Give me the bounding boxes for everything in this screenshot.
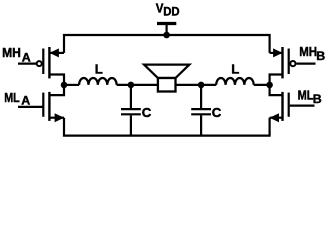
svg-text:ML: ML xyxy=(298,87,314,102)
wire left drain bus node A xyxy=(50,75,64,96)
svg-text:L: L xyxy=(95,61,103,76)
svg-text:DD: DD xyxy=(163,5,179,19)
capacitor C1 xyxy=(121,85,141,136)
power VDD bar xyxy=(157,24,176,36)
junction dot node B xyxy=(266,82,273,89)
junction dot node A xyxy=(61,82,68,89)
svg-text:C: C xyxy=(212,105,222,120)
transistor MH_B (PMOS) xyxy=(270,47,316,78)
svg-text:MH: MH xyxy=(299,44,317,59)
transistor MH_A (PMOS) xyxy=(18,47,64,78)
svg-text:A: A xyxy=(21,93,30,107)
wire speaker to capacitor C2 node to inductor L2 xyxy=(175,84,216,86)
label MH_B xyxy=(299,44,325,63)
svg-text:B: B xyxy=(316,49,325,63)
wire node A to inductor L1 xyxy=(64,84,79,86)
svg-text:B: B xyxy=(313,92,322,106)
junction dot C2 node xyxy=(198,82,205,89)
wire right drain bus node B xyxy=(270,75,283,96)
label MH_A xyxy=(2,45,31,65)
svg-text:C: C xyxy=(142,105,152,120)
transistor ML_B (NMOS) xyxy=(270,92,315,122)
capacitor C2 xyxy=(191,85,211,136)
transistor ML_A (NMOS) xyxy=(18,92,64,122)
wire bottom rail xyxy=(64,118,270,136)
inductor L2 xyxy=(216,78,254,85)
svg-text:ML: ML xyxy=(4,90,20,105)
svg-text:MH: MH xyxy=(2,45,21,60)
wire inductor L2 to node B xyxy=(254,84,270,86)
label ML_B xyxy=(298,87,322,106)
wire top rail VDD xyxy=(64,35,270,53)
power VDD label xyxy=(156,1,180,19)
svg-text:L: L xyxy=(231,61,239,76)
junction dot C1 node xyxy=(128,82,135,89)
speaker horn xyxy=(144,65,189,78)
junction dot VDD rail xyxy=(163,32,170,39)
speaker box xyxy=(158,78,176,92)
svg-text:A: A xyxy=(22,50,31,64)
label ML_A xyxy=(4,90,30,107)
wire inductor L1 to capacitor C1 node to speaker xyxy=(117,84,159,86)
inductor L1 xyxy=(79,78,117,85)
